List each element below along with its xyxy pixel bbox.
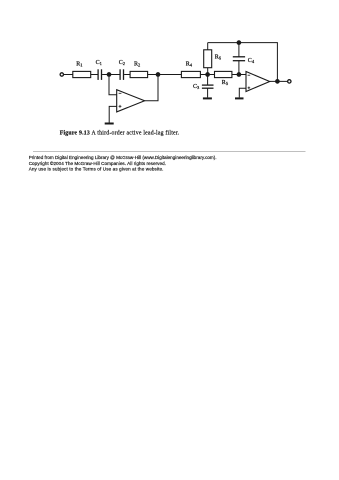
wire node B1 to R4 — [158, 74, 181, 76]
svg-text:R5: R5 — [222, 80, 229, 86]
svg-text:R2: R2 — [134, 61, 140, 67]
svg-text:C2: C2 — [119, 60, 125, 66]
ground for U2 — [235, 97, 244, 99]
wire R5 to node B2 — [232, 74, 246, 76]
wire node A2 up to R6 — [207, 68, 209, 75]
wire R1 to C1 — [91, 74, 98, 76]
resistor R1 — [73, 71, 91, 77]
node A1 junction dot — [107, 72, 112, 77]
svg-text:R4: R4 — [186, 61, 193, 67]
footer rule — [33, 150, 306, 152]
wire R4 to node A2 — [200, 74, 207, 76]
op-amp U1 — [117, 90, 145, 112]
wire op-amp U1 output feedback up to node B1 — [145, 75, 158, 101]
input terminal — [60, 73, 63, 76]
node OUT junction dot — [275, 79, 280, 84]
svg-text:R1: R1 — [76, 61, 82, 67]
wire rail down to capacitor C4 — [238, 43, 240, 57]
svg-text:R6: R6 — [215, 54, 222, 60]
wire op-amp U1 noninverting input to ground — [109, 106, 117, 122]
node B2 junction dot — [237, 72, 242, 77]
wire op-amp U2 noninverting input to ground — [239, 88, 246, 97]
output terminal — [288, 80, 291, 83]
node A2 junction dot — [205, 72, 210, 77]
ground for U1 — [105, 123, 114, 125]
node T junction dot on rail — [237, 40, 242, 45]
capacitor C2 — [120, 69, 123, 80]
svg-text:C3: C3 — [193, 84, 200, 90]
node B1 junction dot — [156, 72, 161, 77]
capacitor C4 — [233, 57, 245, 61]
svg-text:Any use is subject to the Term: Any use is subject to the Terms of Use a… — [29, 167, 164, 172]
feedback rail wire (top) — [208, 43, 278, 82]
wire node A2 to R5 — [208, 74, 215, 76]
resistor R4 — [181, 71, 200, 77]
wire node A1 down to op-amp U1 inverting input — [109, 75, 117, 95]
svg-text:C1: C1 — [96, 60, 102, 66]
wire R2 to node B1 — [148, 74, 158, 76]
resistor R2 — [130, 71, 148, 77]
capacitor C3 — [202, 85, 214, 88]
capacitor C1 — [98, 69, 101, 80]
wire op-amp U2 output — [270, 80, 288, 82]
wire input to R1 — [64, 74, 73, 76]
resistor R6 — [204, 50, 212, 68]
svg-text:Printed from Digital Engineeri: Printed from Digital Engineering Library… — [29, 155, 217, 160]
wire C3 down to ground — [207, 88, 209, 97]
op-amp U2 — [246, 72, 270, 92]
wire C2 to R2 — [124, 74, 130, 76]
wire C1 to node A1 — [102, 74, 109, 76]
wire node A1 to C2 — [109, 74, 120, 76]
svg-text:Copyright ©2004 The McGraw-Hil: Copyright ©2004 The McGraw-Hill Companie… — [29, 160, 166, 166]
wire R6 top to feedback rail — [207, 43, 209, 50]
ground for C3 — [203, 97, 212, 99]
svg-text:C4: C4 — [248, 58, 255, 64]
wire C4 down to node B2 — [238, 61, 240, 75]
svg-text:Figure 9.13A third-order activ: Figure 9.13A third-order active lead-lag… — [60, 129, 180, 136]
resistor R5 — [215, 71, 232, 77]
wire node A2 down to capacitor C3 — [207, 75, 209, 86]
